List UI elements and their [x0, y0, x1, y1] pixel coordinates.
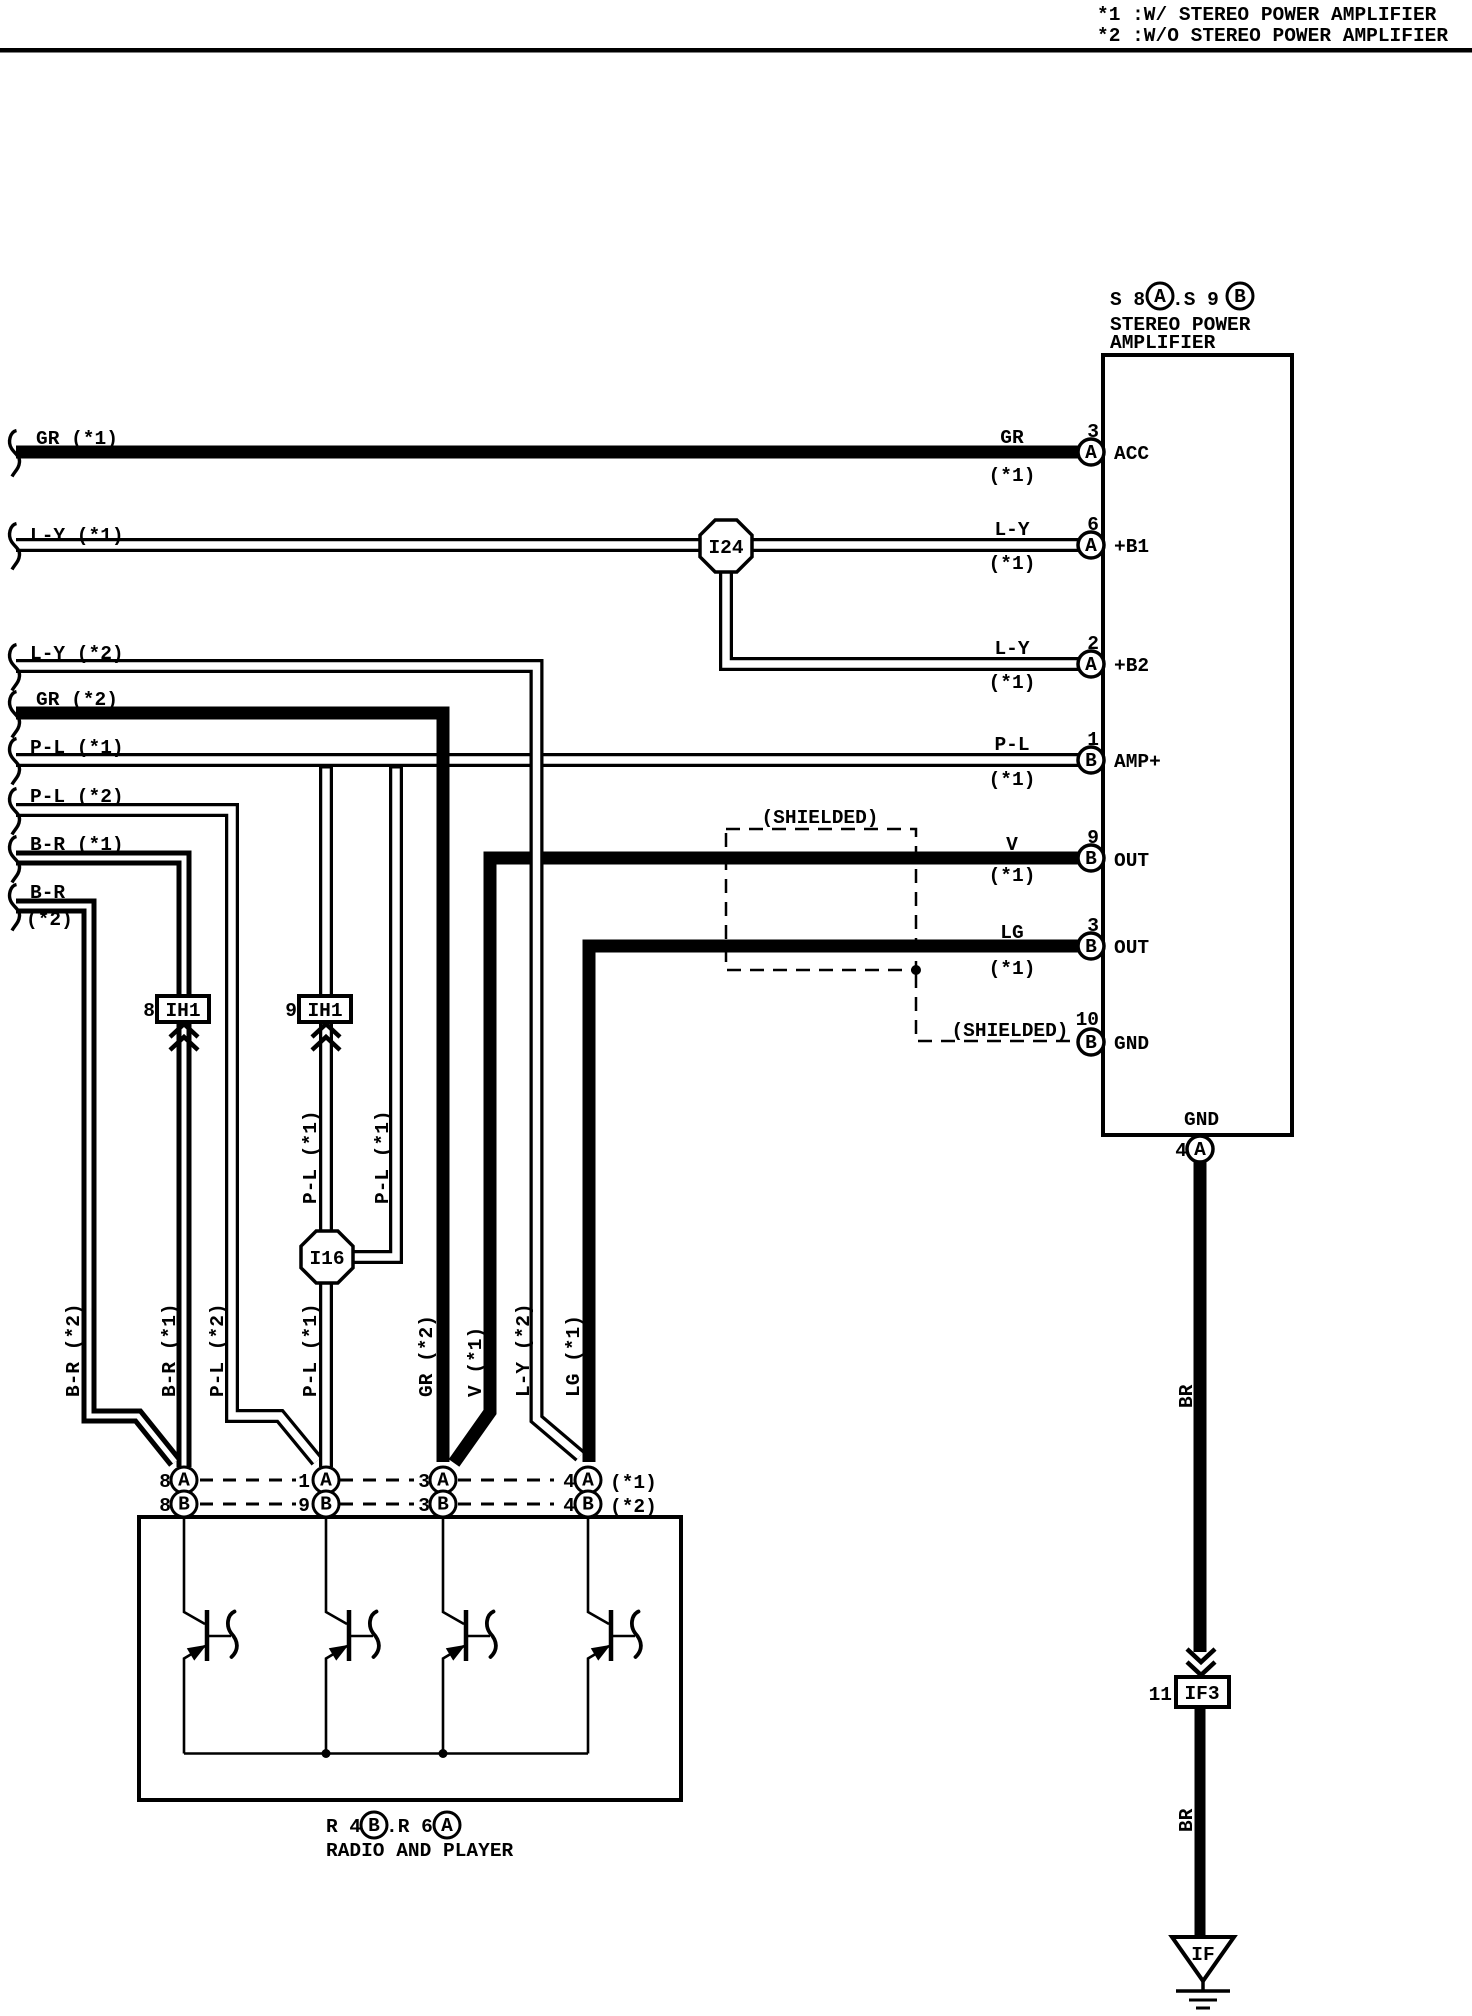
header circled A	[1147, 283, 1173, 309]
svg-text:GR (*2): GR (*2)	[416, 1315, 438, 1397]
connector 11 IF3 box	[1176, 1677, 1229, 1707]
amp pin 2A +B2 circle	[1078, 651, 1104, 677]
transistor Q3 base bar	[464, 1610, 469, 1661]
transistor Q3 emitter lead	[443, 1646, 464, 1754]
svg-text:L-Y (*2): L-Y (*2)	[30, 643, 124, 665]
svg-text:3: 3	[1087, 421, 1099, 443]
svg-text:9: 9	[285, 1000, 297, 1022]
wire L-Y (*2) from left down to connector 4A	[16, 666, 580, 1456]
radio label circled A	[434, 1812, 460, 1838]
svg-text:1: 1	[1087, 729, 1099, 751]
transistor Q4 base bar	[609, 1610, 614, 1661]
radio label circled B	[361, 1812, 387, 1838]
connector 8 IH1 box	[157, 996, 209, 1022]
wire B-R (*2) from left down to connector 8B	[16, 906, 175, 1462]
svg-text:IH1: IH1	[307, 1000, 342, 1022]
transistor Q2 base lead	[351, 1635, 373, 1638]
svg-text:(*1): (*1)	[989, 672, 1036, 694]
transistor Q2 emitter lead	[326, 1646, 347, 1754]
left entry brace P-L (*1)	[10, 739, 20, 785]
wire GR (*1) thick from left to ACC pin 3A	[16, 446, 1078, 459]
svg-text:+B1: +B1	[1114, 536, 1149, 558]
svg-text:B-R (*2): B-R (*2)	[63, 1303, 85, 1397]
stereo power amplifier box	[1103, 355, 1292, 1135]
svg-text:ACC: ACC	[1114, 443, 1149, 465]
amp pin 4A GND circle	[1187, 1136, 1213, 1162]
svg-text:OUT: OUT	[1114, 937, 1149, 959]
transistor Q1 base bar	[205, 1610, 210, 1661]
transistor Q3 emitter arrow	[448, 1647, 462, 1658]
connector pin 3A circle	[430, 1467, 456, 1493]
svg-text:B: B	[1085, 848, 1097, 870]
svg-text:9: 9	[298, 1495, 310, 1517]
svg-text:.R 6: .R 6	[386, 1816, 433, 1838]
transistor Q1 base lead	[209, 1635, 231, 1638]
transistor Q2 emitter arrow	[331, 1647, 345, 1658]
svg-text:LG (*1): LG (*1)	[563, 1315, 585, 1397]
svg-text:(*1): (*1)	[989, 553, 1036, 575]
svg-text:IF: IF	[1191, 1944, 1214, 1966]
svg-text:P-L (*1): P-L (*1)	[30, 737, 124, 759]
shield drain dashed wire to GND pin 10B	[916, 974, 1076, 1041]
svg-text:IF3: IF3	[1184, 1683, 1219, 1705]
svg-text:P-L (*2): P-L (*2)	[30, 786, 124, 808]
transistor Q4 collector lead	[588, 1519, 609, 1624]
svg-text:3: 3	[418, 1495, 430, 1517]
svg-text:A: A	[320, 1470, 332, 1492]
connector pin 4B circle	[575, 1491, 601, 1517]
svg-text:L-Y (*1): L-Y (*1)	[30, 525, 124, 547]
wire BR thick from IF3 down to ground IF	[1195, 1707, 1206, 1938]
svg-text:GR (*2): GR (*2)	[36, 689, 118, 711]
svg-text:GR: GR	[1000, 427, 1024, 449]
svg-text:P-L: P-L	[994, 734, 1029, 756]
svg-text:A: A	[1085, 535, 1097, 557]
svg-text:GND: GND	[1114, 1033, 1149, 1055]
amp pin 3B OUT circle	[1078, 933, 1104, 959]
connector pin 9B circle	[313, 1491, 339, 1517]
svg-text:AMPLIFIER: AMPLIFIER	[1110, 332, 1216, 354]
connector row B chain dashes	[200, 1503, 554, 1506]
svg-text:A: A	[1154, 286, 1166, 308]
transistor Q2 base bar	[347, 1610, 352, 1661]
svg-text:(*1): (*1)	[989, 958, 1036, 980]
svg-text:B-R: B-R	[30, 882, 65, 904]
bus junction dot Q2	[322, 1749, 331, 1758]
svg-text:11: 11	[1149, 1684, 1172, 1706]
svg-text:V (*1): V (*1)	[465, 1327, 487, 1397]
amp pin 10B GND circle	[1078, 1029, 1104, 1055]
left entry brace L-Y (*2)	[10, 645, 20, 691]
svg-text:A: A	[441, 1815, 453, 1837]
emitter bus wire	[184, 1752, 588, 1755]
svg-text:.S 9: .S 9	[1172, 289, 1219, 311]
svg-text:B: B	[1085, 750, 1097, 772]
svg-text:S 8: S 8	[1110, 289, 1145, 311]
connector pin 8B circle	[171, 1491, 197, 1517]
svg-text:B: B	[320, 1494, 332, 1516]
svg-text:4: 4	[1175, 1140, 1187, 1162]
arrow into 8 IH1	[170, 1024, 198, 1050]
wire P-L (*2) from left down to connector 9B	[16, 810, 317, 1461]
arrow into 11 IF3	[1187, 1649, 1215, 1675]
wire GR (*2) thick from left down to connector 3A	[16, 713, 443, 1462]
ground symbol bars	[1176, 1989, 1230, 1993]
svg-text:(*1): (*1)	[610, 1472, 657, 1494]
amp pin 6A +B1 circle	[1078, 532, 1104, 558]
transistor Q4 emitter arrow	[593, 1647, 607, 1658]
svg-text:GND: GND	[1184, 1109, 1219, 1131]
bus junction dot Q3	[439, 1749, 448, 1758]
left entry brace P-L (*2)	[10, 789, 20, 835]
header circled B	[1227, 283, 1253, 309]
arrow into 9 IH1	[312, 1024, 340, 1050]
amp pin 9B OUT circle	[1078, 845, 1104, 871]
wire V (*1) thick from OUT pin 9B down to connector 3A	[454, 858, 1078, 1463]
svg-text:A: A	[1194, 1139, 1206, 1161]
svg-text:L-Y (*2): L-Y (*2)	[513, 1303, 535, 1397]
svg-text:(*1): (*1)	[989, 465, 1036, 487]
svg-text:P-L (*2): P-L (*2)	[207, 1303, 229, 1397]
svg-text:1: 1	[298, 1471, 310, 1493]
left entry brace L-Y (*1)	[10, 524, 20, 570]
amp pin 3A ACC circle	[1078, 439, 1104, 465]
svg-text:A: A	[1085, 654, 1097, 676]
ground triangle stem	[1201, 1981, 1205, 1991]
wire L-Y (*1) from left to +B1 pin 6A	[16, 538, 1078, 552]
svg-text:(*1): (*1)	[989, 769, 1036, 791]
transistor Q4 curve	[632, 1612, 641, 1658]
svg-text:BR: BR	[1176, 1384, 1198, 1408]
svg-text:(SHIELDED): (SHIELDED)	[951, 1020, 1068, 1042]
transistor Q1 curve	[228, 1612, 237, 1658]
wire P-L (*1) branch down through IH1 and I16 to connector 1A	[319, 764, 333, 1467]
wire P-L (*1) main from left to AMP+ pin 1B	[16, 753, 1078, 767]
svg-text:LG: LG	[1000, 922, 1023, 944]
wire LG (*1) thick from OUT pin 3B down to connector 4A	[589, 946, 1078, 1462]
svg-text:A: A	[437, 1470, 449, 1492]
svg-text:6: 6	[1087, 514, 1099, 536]
amp pin 1B AMP+ circle	[1078, 747, 1104, 773]
shielded dashed box around V and LG wires	[726, 829, 916, 970]
svg-text:B: B	[1234, 286, 1246, 308]
svg-text:8: 8	[143, 1000, 155, 1022]
wire P-L (*1) second branch down into I16 right side	[353, 764, 396, 1257]
svg-text:P-L (*1): P-L (*1)	[300, 1303, 322, 1397]
svg-text:L-Y: L-Y	[994, 638, 1029, 660]
svg-text:*2 :W/O STEREO POWER AMPLIFIER: *2 :W/O STEREO POWER AMPLIFIER	[1097, 25, 1448, 47]
svg-text:RADIO AND PLAYER: RADIO AND PLAYER	[326, 1840, 514, 1862]
wire B-R (*1) from left down to connector 8A	[16, 858, 184, 1467]
svg-text:B-R (*1): B-R (*1)	[30, 834, 124, 856]
connector row A chain dashes	[200, 1479, 554, 1482]
svg-text:B: B	[1085, 936, 1097, 958]
svg-text:4: 4	[563, 1495, 575, 1517]
svg-text:B: B	[582, 1494, 594, 1516]
connector pin 4A circle	[575, 1467, 601, 1493]
svg-text:I16: I16	[309, 1248, 344, 1270]
svg-text:A: A	[582, 1470, 594, 1492]
wire BR thick from GND pin 4A down to IF3	[1194, 1161, 1207, 1652]
svg-text:9: 9	[1087, 827, 1099, 849]
connector 9 IH1 box	[299, 996, 351, 1022]
connector pin 8A circle	[171, 1467, 197, 1493]
left entry brace B-R (*1)	[10, 837, 20, 883]
svg-text:P-L (*1): P-L (*1)	[372, 1110, 394, 1204]
transistor Q4 base lead	[613, 1635, 635, 1638]
svg-text:B: B	[368, 1815, 380, 1837]
left entry brace GR (*2)	[10, 692, 20, 738]
junction dot on shield box	[911, 965, 921, 975]
svg-text:BR: BR	[1176, 1808, 1198, 1832]
left entry brace B-R (*2)	[10, 885, 20, 931]
svg-text:2: 2	[1087, 633, 1099, 655]
connector I24 octagon	[700, 520, 752, 572]
svg-text:A: A	[1085, 442, 1097, 464]
svg-text:*1 :W/ STEREO POWER AMPLIFIER: *1 :W/ STEREO POWER AMPLIFIER	[1097, 4, 1437, 26]
svg-text:OUT: OUT	[1114, 850, 1149, 872]
transistor Q1 emitter lead	[184, 1646, 205, 1754]
svg-text:IH1: IH1	[165, 1000, 200, 1022]
svg-text:R 4: R 4	[326, 1816, 361, 1838]
svg-text:L-Y: L-Y	[994, 519, 1029, 541]
svg-text:(*1): (*1)	[989, 865, 1036, 887]
svg-text:GR (*1): GR (*1)	[36, 428, 118, 450]
connector pin 3B circle	[430, 1491, 456, 1517]
svg-text:V: V	[1006, 834, 1018, 856]
transistor Q2 curve	[370, 1612, 379, 1658]
svg-text:10: 10	[1076, 1009, 1099, 1031]
transistor Q1 emitter arrow	[189, 1647, 203, 1658]
svg-text:3: 3	[418, 1471, 430, 1493]
top border rule	[0, 48, 1472, 53]
svg-text:(SHIELDED): (SHIELDED)	[761, 807, 878, 829]
svg-text:3: 3	[1087, 915, 1099, 937]
svg-text:A: A	[178, 1470, 190, 1492]
svg-text:B-R (*1): B-R (*1)	[159, 1303, 181, 1397]
connector I16 octagon	[301, 1231, 353, 1283]
ground triangle IF	[1172, 1937, 1234, 1981]
svg-text:8: 8	[159, 1471, 171, 1493]
connector pin 1A circle	[313, 1467, 339, 1493]
transistor Q3 curve	[487, 1612, 496, 1658]
transistor Q2 collector lead	[326, 1519, 347, 1624]
wire L-Y (*1) branch from I24 down to +B2 pin 2A	[726, 570, 1078, 664]
transistor Q3 collector lead	[443, 1519, 464, 1624]
svg-text:I24: I24	[708, 537, 743, 559]
transistor Q3 base lead	[468, 1635, 490, 1638]
svg-text:B: B	[1085, 1032, 1097, 1054]
transistor Q4 emitter lead	[588, 1646, 609, 1754]
left entry brace GR (*1)	[10, 431, 20, 477]
svg-text:B: B	[178, 1494, 190, 1516]
svg-text:P-L (*1): P-L (*1)	[300, 1110, 322, 1204]
svg-text:8: 8	[159, 1495, 171, 1517]
transistor Q1 collector lead	[184, 1519, 205, 1624]
svg-text:+B2: +B2	[1114, 655, 1149, 677]
svg-text:(*2): (*2)	[26, 909, 73, 931]
svg-text:(*2): (*2)	[610, 1496, 657, 1518]
svg-text:AMP+: AMP+	[1114, 751, 1161, 773]
radio and player box	[139, 1517, 681, 1800]
svg-text:4: 4	[563, 1471, 575, 1493]
svg-text:B: B	[437, 1494, 449, 1516]
